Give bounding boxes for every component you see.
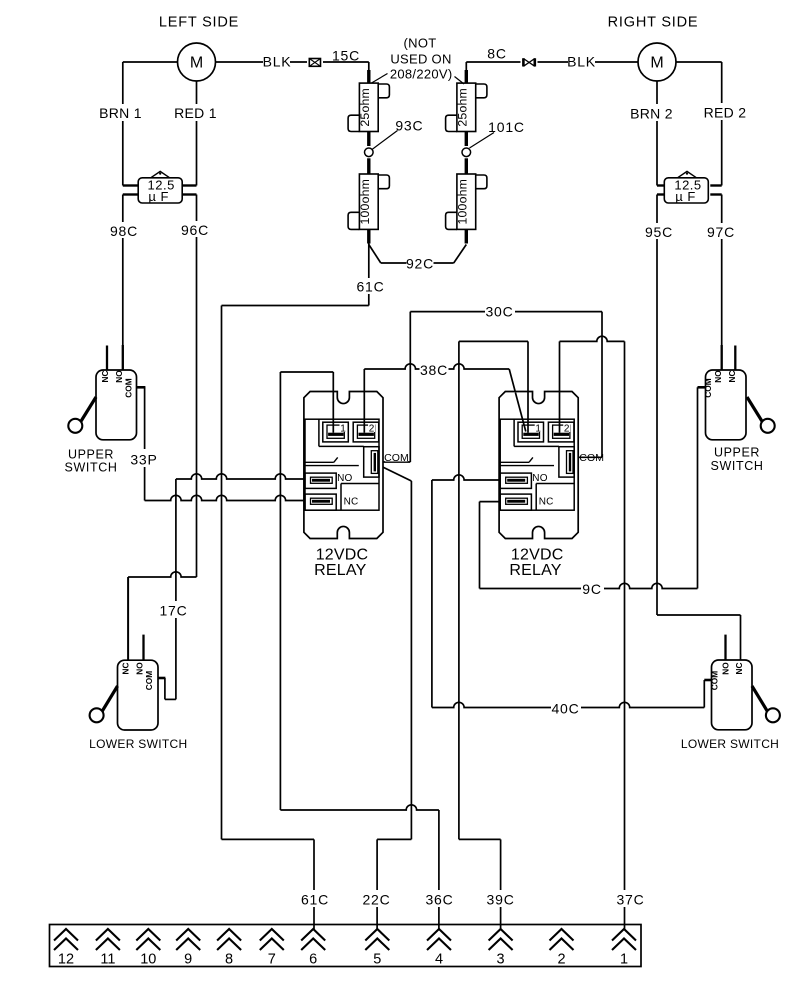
wire 30C into relay1 COM [376,461,411,463]
switch lower-left lever+roller [90,686,118,722]
svg-text:COM: COM [384,452,409,464]
label RED 2 [705,103,746,120]
wire 37C long vertical to terminal 1 [624,341,626,929]
svg-text:BRN 1: BRN 1 [99,105,142,121]
wire relay2 NC line [480,501,512,503]
svg-text:RELAY: RELAY [509,562,561,579]
svg-text:61C: 61C [301,892,329,908]
svg-text:11: 11 [100,952,115,968]
wire 9C horizontal [480,583,698,588]
svg-text:12: 12 [58,952,74,968]
svg-text:9: 9 [184,952,192,968]
svg-text:1: 1 [535,423,541,434]
svg-text:25ohm: 25ohm [358,88,372,127]
svg-text:100ohm: 100ohm [456,179,470,225]
label BLK right [568,54,595,69]
wire relay1 NC line [145,495,316,500]
label BRN 1 [101,104,142,121]
svg-text:NO: NO [337,473,352,484]
wire 38C diagonal to relay2 pin1 [509,369,526,432]
wire 22C vertical [410,481,412,839]
svg-text:SWITCH: SWITCH [65,461,118,475]
svg-text:39C: 39C [487,892,515,908]
svg-text:8: 8 [225,952,233,968]
svg-text:38C: 38C [420,362,448,378]
svg-text:COM: COM [579,452,604,464]
wire 61C long vertical [221,306,223,840]
label 96C [181,221,209,237]
svg-text:RIGHT SIDE: RIGHT SIDE [608,15,699,31]
label BRN 2 [631,104,673,121]
svg-text:98C: 98C [110,223,138,239]
switch upper-right lever+roller [747,397,775,433]
svg-text:22C: 22C [362,892,390,908]
wire relay1 pin1 up [332,372,334,433]
svg-text:LOWER SWITCH: LOWER SWITCH [89,737,187,751]
svg-text:15C: 15C [332,48,360,64]
upper switch right COM stub [698,386,706,389]
label 36C terminal [425,890,454,907]
wire 95C vertical [656,195,658,616]
svg-text:M: M [190,55,203,72]
svg-text:9C: 9C [582,581,602,597]
upper switch right NC stub [734,346,736,371]
wire 15C lead corner down [368,62,370,71]
relay 12VDC right body+internals [499,392,578,539]
wire 30C down-left to relay1 COM [409,312,411,462]
wire motor to BLK splice to 15C corner [197,61,369,63]
lower switch left NO stub [142,635,144,661]
label RED 1 [176,104,217,121]
wire to lower-right switch NC [740,615,742,660]
svg-text:M: M [650,55,663,72]
wire relay2 pin2 drop (over body) [559,392,561,433]
wire relay1 pin1 drop (over body) [332,392,334,433]
wire 92C diag right [454,245,467,264]
wire relay2 NO down [431,480,433,708]
wire BRN1 vertical [122,62,124,186]
svg-text:NO: NO [721,662,731,675]
switch lower-left body [118,660,159,730]
wire 8C lead corner down [465,62,467,71]
label 40C [551,700,581,716]
label 98C [110,222,138,238]
label 38C [420,362,449,377]
svg-text:µ F: µ F [675,189,696,204]
terminal chevrons 12..1 [54,929,636,968]
svg-text:COM: COM [703,378,713,397]
svg-text:BLK: BLK [567,54,596,70]
wire 95C corner right [657,614,741,616]
wire pin1 bridge horizontal [280,371,333,373]
terminal strip body [50,925,642,967]
wire 37C bridge top [560,336,625,341]
relay left pin label COM [385,451,408,462]
lower-left switch COM stub [158,677,166,680]
svg-text:BLK: BLK [263,54,292,70]
svg-text:30C: 30C [485,304,513,320]
wire 39C long vertical [458,341,460,839]
svg-text:RED 1: RED 1 [174,105,217,121]
wire 98C vertical [122,195,124,371]
svg-text:COM: COM [144,671,154,690]
svg-text:NC: NC [121,663,131,675]
svg-text:NC: NC [100,371,110,383]
svg-text:NO: NO [532,473,547,484]
lower switch right COM stub [704,679,712,682]
wire relay1 pin2 up [363,369,365,433]
svg-text:8C: 8C [487,46,507,62]
label 92C [407,256,434,271]
switch lower-right body [712,660,753,730]
label 37C terminal [616,890,645,907]
wire relay1 NO line [176,474,316,479]
svg-text:7: 7 [268,952,276,968]
splice connector right (bowtie) [521,57,538,68]
leader to right resistor lead [455,77,465,85]
upper switch right NO pin [721,345,723,370]
leader to left resistor lead [372,74,388,84]
wire relay2 pin2 down [559,341,561,432]
capacitor 12.5uF right [664,171,708,203]
wire 39C bridge top [459,340,528,342]
label 22C terminal [362,890,391,907]
wire 39C to terminal 3 [500,839,502,929]
svg-text:COM: COM [124,378,134,397]
label 39C terminal [486,890,515,907]
svg-text:93C: 93C [395,118,423,134]
label 61C upper [356,278,385,294]
wire 9C up to upper switch COM [697,387,699,588]
svg-text:17C: 17C [159,603,187,619]
svg-text:BRN 2: BRN 2 [630,106,673,122]
relay 12VDC left body+internals [304,392,383,539]
wire 61C to terminal 6 [313,839,315,929]
wire 38C horizontal [364,364,509,369]
svg-text:NC: NC [344,496,359,507]
wire 92C diag left [369,245,381,264]
resistor 25ohm + 100ohm chain right [446,70,487,244]
lower switch right NO stub [724,635,726,660]
wire 8C corner to BLK splice to motor-right [466,61,657,63]
svg-text:37C: 37C [616,892,644,908]
wire 61C vertical from resistor [368,244,370,306]
capacitor 12.5uF left [138,171,182,203]
svg-text:NO: NO [135,662,145,675]
label 9C [581,581,604,596]
wire 61C bottom horizontal [222,838,315,840]
label 17C [159,601,189,618]
wire 96C to NC horizontal [128,572,196,577]
svg-text:NO: NO [114,370,124,383]
wire 17C vertical [175,479,177,699]
wire 22C diagonal from relay1 COM [376,464,412,482]
wire relay1 pin2 drop (over body) [363,392,365,433]
motor M left [178,43,216,81]
svg-text:SWITCH: SWITCH [711,459,764,473]
svg-text:UPPER: UPPER [714,446,760,460]
wire RED2 vertical [721,62,723,186]
wire lower-left COM jog [164,678,166,699]
wire relay2 NO line [432,475,511,480]
svg-text:92C: 92C [406,255,434,271]
svg-text:RELAY: RELAY [314,562,366,579]
wire 40C horizontal [432,702,704,707]
svg-text:2: 2 [557,952,565,968]
switch lower-right lever+roller [752,686,780,722]
wire 61C horizontal [222,305,369,307]
wire 30C horizontal [410,311,602,313]
svg-text:40C: 40C [551,701,579,717]
svg-text:97C: 97C [707,224,735,240]
wire 39C horizontal [459,838,501,840]
wire relay2 NC down [479,502,481,589]
svg-text:UPPER: UPPER [68,447,114,461]
svg-text:NC: NC [539,496,554,507]
wire 36C to terminal 4 [438,810,440,930]
wire 30C into relay2 COM [571,456,603,458]
svg-text:100ohm: 100ohm [358,179,372,225]
wire 38C diag tail (over body) [515,393,525,432]
switch upper-left lever+roller [68,397,96,433]
wire relay2 pin1 down [527,341,529,432]
wire 33P vertical [144,387,146,500]
wire motor-left to BRN1 corner [123,61,197,63]
label 95C [645,223,673,239]
svg-text:5: 5 [373,952,381,968]
wire 96C vertical [196,195,198,578]
svg-text:COM: COM [710,671,720,690]
upper switch left NC stub [106,346,108,371]
svg-text:(NOT: (NOT [404,36,437,51]
label 61C terminal [301,890,330,907]
wire 36C long vertical [279,372,281,810]
wire 22C to terminal 5 [376,839,378,929]
svg-text:12VDC: 12VDC [316,547,369,564]
switch upper-right body [706,370,747,440]
svg-text:208/220V): 208/220V) [390,67,453,82]
label 97C [707,223,735,239]
wire 92C horizontal [381,262,454,264]
svg-text:4: 4 [435,952,443,968]
resistor 25ohm + 100ohm chain left [348,70,389,244]
capacitor 12.5uF left stubs [123,184,138,186]
wire 40C up to lower switch COM [703,680,705,708]
label BLK left [263,54,290,69]
wire BRN2 vertical [656,62,658,186]
wire 36C horizontal [280,805,439,810]
wire lower-left switch NC pin [127,577,129,660]
capacitor 12.5uF right stubs [657,184,664,186]
label 33P [131,449,158,467]
svg-text:25ohm: 25ohm [456,88,470,127]
svg-text:10: 10 [140,952,156,968]
svg-text:33P: 33P [130,452,157,468]
upper switch left COM stub [137,386,146,389]
motor M right [638,43,676,81]
switch upper-left body [96,370,137,440]
svg-text:96C: 96C [181,222,209,238]
wire 30C down-right to relay2 COM [601,312,603,458]
label 30C [485,303,515,319]
svg-text:12VDC: 12VDC [511,547,564,564]
svg-text:LOWER SWITCH: LOWER SWITCH [681,737,779,751]
svg-text:1: 1 [340,423,346,434]
svg-text:NO: NO [713,370,723,383]
svg-text:36C: 36C [425,892,453,908]
upper switch left NO pin [122,345,124,370]
splice connector left (boxed X) [307,57,323,68]
svg-text:6: 6 [309,952,317,968]
svg-text:NC: NC [727,371,737,383]
wire relay2 pin1 drop (over body) [527,392,529,433]
wire motor-right to RED2 corner [657,61,722,63]
svg-text:61C: 61C [356,279,384,295]
svg-text:µ F: µ F [148,189,169,204]
svg-text:2: 2 [369,423,375,434]
svg-text:NC: NC [734,663,744,675]
svg-text:USED ON: USED ON [390,52,451,67]
wire 22C horizontal [377,838,411,840]
svg-text:95C: 95C [645,224,673,240]
svg-text:1: 1 [620,952,628,968]
wire 97C vertical [721,195,723,371]
svg-text:3: 3 [497,952,505,968]
svg-text:RED 2: RED 2 [704,105,747,121]
svg-text:LEFT SIDE: LEFT SIDE [159,15,239,31]
svg-text:2: 2 [564,423,570,434]
wire RED1 vertical [196,62,198,186]
